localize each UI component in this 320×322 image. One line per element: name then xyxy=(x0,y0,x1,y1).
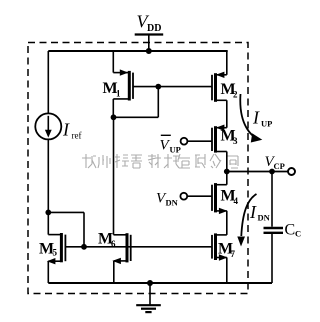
svg-text:1: 1 xyxy=(116,89,121,99)
node M1 drain junction xyxy=(111,114,117,120)
svg-text:5: 5 xyxy=(53,248,58,258)
wire left branch down to current source xyxy=(47,51,49,114)
transistor M1 xyxy=(113,51,133,117)
wire M4 gate to VDN terminal xyxy=(187,195,212,197)
wire M3 gate to VUPbar terminal xyxy=(188,140,213,142)
ground xyxy=(136,283,161,312)
wire gate bus M5-M6-M7 xyxy=(65,246,212,248)
label IDN xyxy=(249,202,271,223)
transistor M3 xyxy=(212,125,227,172)
svg-text:I: I xyxy=(62,120,70,140)
node Iref/M5 drain xyxy=(45,210,51,216)
svg-text:CP: CP xyxy=(274,161,285,171)
svg-text:2: 2 xyxy=(233,90,238,100)
wire bottom rail xyxy=(48,282,272,284)
svg-text:C: C xyxy=(295,229,301,239)
wire VCP output xyxy=(227,171,288,173)
label VDN xyxy=(156,191,179,208)
transistor M6 xyxy=(112,117,130,283)
label M2 xyxy=(221,81,239,100)
label M4 xyxy=(221,188,239,207)
label M1 xyxy=(103,80,122,99)
wire gate-bias link horizontal xyxy=(48,211,84,213)
svg-text:ref: ref xyxy=(72,131,82,141)
transistor M7 xyxy=(212,233,228,283)
label VCP xyxy=(265,154,285,171)
transistor M4 xyxy=(212,172,228,235)
svg-text:7: 7 xyxy=(231,249,236,259)
label M3 xyxy=(221,128,239,147)
svg-text:DN: DN xyxy=(166,198,179,208)
svg-text:4: 4 xyxy=(234,196,239,206)
arrow IUP current xyxy=(240,94,262,143)
terminal VCP xyxy=(288,168,295,175)
label M6 xyxy=(98,231,116,250)
transistor M5 xyxy=(47,233,66,283)
wire M1 diode link xyxy=(114,87,159,118)
label M5 xyxy=(39,241,58,258)
label CC xyxy=(285,222,302,239)
terminal VDN xyxy=(180,193,187,200)
node VCP junction M3/M4 xyxy=(224,169,230,175)
svg-text:UP: UP xyxy=(170,145,181,155)
svg-text:C: C xyxy=(285,222,296,239)
dashed enclosure border xyxy=(28,43,248,294)
label M7 xyxy=(218,241,236,260)
node VDD rail junction xyxy=(146,48,152,54)
label Iref xyxy=(62,120,82,141)
label VUP bar xyxy=(160,135,181,154)
wire gate-bias link vertical xyxy=(83,212,85,246)
watermark 杭州将睿科技有限公司 (drawn glyphs) xyxy=(82,154,238,168)
svg-text:I: I xyxy=(252,108,260,128)
wire M1/M2 gate line xyxy=(133,86,212,88)
capacitor CC xyxy=(264,172,284,284)
node ground tap xyxy=(147,280,153,286)
svg-text:DN: DN xyxy=(258,213,271,223)
svg-text:UP: UP xyxy=(261,119,272,129)
terminal VUPbar xyxy=(181,138,188,145)
label VDD xyxy=(137,12,162,35)
svg-text:DD: DD xyxy=(147,23,161,34)
wire Iref to M5 drain xyxy=(47,139,49,234)
svg-text:3: 3 xyxy=(233,136,238,146)
transistor M2 xyxy=(212,51,227,128)
svg-text:6: 6 xyxy=(111,239,116,249)
current source Iref xyxy=(35,113,61,139)
VDD supply bar xyxy=(135,35,164,52)
arrow IDN current xyxy=(237,194,256,247)
label IUP xyxy=(252,108,272,129)
node gate bus junction xyxy=(81,244,87,250)
node CC tap xyxy=(269,169,275,175)
node gate line junction xyxy=(155,84,161,90)
svg-text:I: I xyxy=(249,202,257,222)
wire top rail xyxy=(48,50,227,52)
